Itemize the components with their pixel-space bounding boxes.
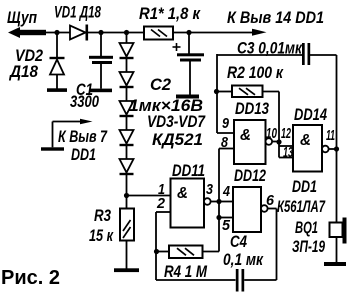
diode VD5: [120, 101, 134, 117]
node: R2 left junction: [214, 89, 219, 94]
svg-text:&: &: [240, 127, 251, 144]
wire: pin 5 input: [219, 217, 233, 219]
svg-text:К Выв 7: К Выв 7: [58, 127, 108, 146]
label К Выв 7 DD1: [58, 127, 108, 164]
wire: pin 11 to right rail: [329, 148, 337, 150]
pin 10 output circle: [266, 138, 273, 145]
diode VD1: [70, 25, 88, 41]
op-amp gate DD1.3: [234, 120, 266, 164]
resistor R3: [120, 196, 134, 269]
pin 6 output circle: [261, 205, 268, 212]
diode VD6: [120, 130, 134, 146]
pin 3 output circle: [204, 198, 211, 205]
resistor R2: [217, 86, 279, 98]
svg-text:6: 6: [266, 192, 275, 209]
svg-text:DD14: DD14: [294, 105, 327, 124]
svg-text:DD11: DD11: [172, 161, 205, 180]
node: pin3/pin4 junction: [216, 199, 221, 204]
node: C2 junction: [186, 30, 191, 35]
diode VD4: [120, 72, 134, 88]
svg-text:11: 11: [326, 127, 335, 144]
capacitor C2 (electrolytic, +): [173, 33, 205, 95]
svg-text:13: 13: [283, 144, 293, 161]
op-amp gate DD1.2: [233, 187, 261, 232]
resistor R1: [144, 27, 173, 40]
node: probe junction: [54, 30, 59, 35]
svg-text:10: 10: [266, 125, 277, 142]
svg-text:&: &: [300, 132, 311, 149]
node: pin2/R4 left junction: [154, 249, 159, 254]
svg-text:Щуп: Щуп: [7, 8, 37, 27]
svg-text:12: 12: [281, 125, 291, 142]
svg-text:1мк×16В: 1мк×16В: [129, 96, 203, 115]
svg-text:4: 4: [222, 183, 230, 200]
wire arrow: К Выв 14 DD1: [252, 29, 267, 36]
label R3 15 к: [89, 206, 114, 245]
svg-text:15 к: 15 к: [89, 226, 114, 245]
node: pin5 junction: [216, 215, 221, 220]
svg-text:R3: R3: [94, 206, 111, 225]
svg-text:3: 3: [206, 181, 214, 198]
label VD3-VD7 КД521: [147, 112, 206, 149]
ground (VD2): [47, 88, 67, 92]
svg-text:С3 0,01мк: С3 0,01мк: [237, 39, 303, 58]
svg-text:9: 9: [222, 115, 230, 132]
svg-text:DD1: DD1: [71, 145, 96, 164]
svg-text:BQ1: BQ1: [295, 218, 318, 237]
label C4 0,1 мк: [223, 232, 264, 269]
wire: pin 1 input: [127, 195, 171, 197]
ground (C2): [176, 95, 199, 99]
svg-text:R4 1 М: R4 1 М: [164, 262, 208, 281]
wire: pin 13 input: [279, 157, 293, 159]
label VD2 Д18: [8, 46, 43, 81]
resistor R4: [157, 246, 220, 259]
wire: bottom rail right: [244, 279, 276, 281]
op-amp gate DD1.4: [293, 125, 322, 172]
svg-text:DD1: DD1: [292, 177, 317, 196]
wire: pin 10 to junction: [272, 141, 279, 143]
wire: diode chain: [126, 33, 128, 197]
capacitor C3: [302, 43, 310, 65]
label C1 3300: [70, 80, 99, 111]
wire: К Выв 7 DD1 stub: [41, 119, 93, 151]
svg-text:С4: С4: [230, 232, 247, 251]
svg-text:КД521: КД521: [152, 130, 203, 149]
node: after VD1: [98, 30, 103, 35]
ground (C1): [90, 89, 112, 93]
svg-text:DD13: DD13: [235, 99, 269, 118]
wire: pin 8 input from DD1.1 output node: [219, 149, 234, 252]
svg-text:ЗП-19: ЗП-19: [292, 237, 325, 256]
svg-text:3300: 3300: [70, 92, 99, 111]
svg-text:0,1 мк: 0,1 мк: [223, 250, 264, 269]
ground (BQ1): [324, 262, 346, 266]
svg-text:R1* 1,8 к: R1* 1,8 к: [139, 4, 201, 23]
svg-text:С2: С2: [150, 75, 172, 94]
svg-text:8: 8: [221, 134, 229, 151]
wire: C3 to right rail: [310, 54, 337, 56]
wire: main top rail: [20, 32, 252, 34]
wire: bottom rail left: [156, 279, 236, 281]
capacitor C4: [236, 269, 244, 292]
op-amp gate DD1.1: [171, 179, 205, 228]
wire: pin 12 input: [279, 145, 293, 147]
svg-text:К Выв 14 DD1: К Выв 14 DD1: [227, 8, 324, 27]
diode VD7: [120, 159, 134, 175]
pin 11 output circle: [322, 146, 329, 153]
wire: pin 4 input: [219, 201, 233, 203]
label DD1 К561ЛА7: [277, 177, 326, 216]
wire: node pin9/C3/R2 top: [217, 54, 302, 133]
svg-text:&: &: [177, 185, 188, 202]
wire: R2 right down to pin12/13: [278, 92, 280, 158]
wire: pin 6 to C4 right rail: [268, 209, 277, 281]
node: diode chain top: [124, 30, 129, 35]
wire: pin 9 input: [217, 132, 234, 134]
wire: pin 2 input from R4/C4 node: [156, 212, 171, 280]
svg-text:Д18: Д18: [8, 62, 38, 81]
sounder BQ1: [330, 218, 347, 263]
wire: right rail down: [336, 55, 338, 223]
svg-text:Рис. 2: Рис. 2: [1, 267, 60, 289]
svg-text:2: 2: [156, 195, 166, 212]
svg-text:VD1 Д18: VD1 Д18: [54, 3, 101, 22]
wire: pin 3 to node: [211, 201, 219, 203]
node: pin10/12/13 junction: [276, 139, 281, 144]
label BQ1 ЗП-19: [292, 218, 325, 256]
diode VD3: [120, 43, 134, 59]
node: pin 11 / right rail: [334, 146, 339, 151]
ground (R3): [114, 268, 139, 272]
svg-text:К561ЛА7: К561ЛА7: [277, 197, 326, 216]
diode VD2: [50, 33, 65, 89]
capacitor C1: [89, 33, 113, 89]
svg-text:R2 100 к: R2 100 к: [227, 63, 284, 82]
probe Щуп: [8, 27, 46, 38]
node: chain bottom / pin1 / R3: [124, 193, 129, 198]
svg-text:DD12: DD12: [234, 166, 266, 185]
label C2 1мк×16В: [129, 75, 203, 115]
